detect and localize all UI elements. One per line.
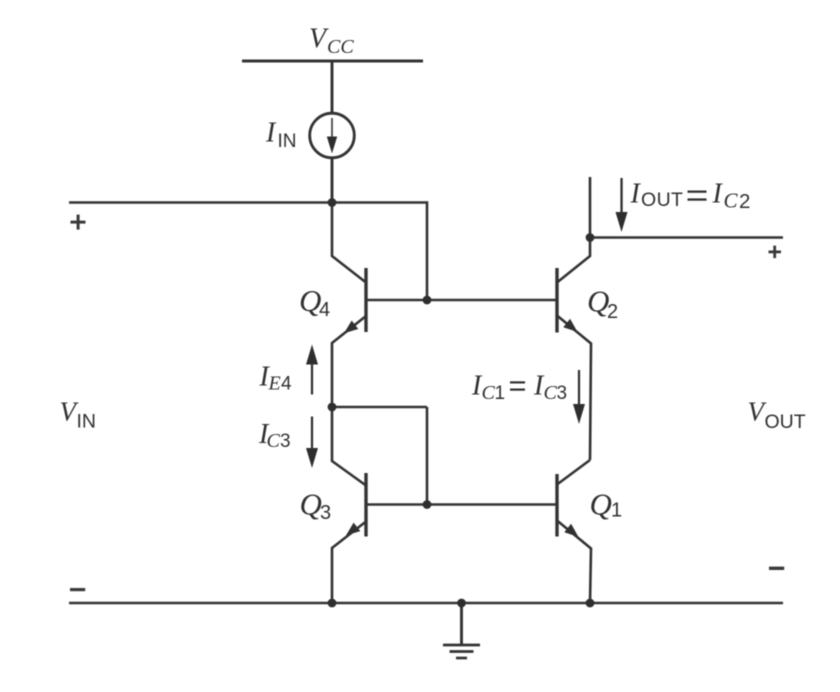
output rail (top right line) bbox=[590, 236, 783, 239]
label IE4 bbox=[259, 362, 293, 395]
current source arrowhead bbox=[327, 137, 337, 154]
svg-text:Q: Q bbox=[590, 487, 612, 522]
svg-text:4: 4 bbox=[319, 299, 330, 321]
label VCC bbox=[309, 24, 354, 59]
wire node B horizontal bbox=[332, 406, 427, 409]
svg-text:E: E bbox=[268, 373, 281, 395]
minus sign output bbox=[769, 567, 784, 570]
transistor Q3 base bar bbox=[364, 473, 367, 537]
svg-text:C: C bbox=[267, 430, 281, 452]
ground symbol bbox=[443, 645, 480, 658]
svg-text:I: I bbox=[712, 179, 724, 210]
svg-text:I: I bbox=[630, 179, 642, 210]
label IC3 left bbox=[258, 419, 291, 452]
wire base net Q3 to Q1 bbox=[366, 503, 557, 506]
svg-text:Q: Q bbox=[300, 487, 322, 522]
junction Q1 emitter to ground rail bbox=[586, 599, 595, 608]
wire base net Q4 to Q2 bbox=[366, 299, 557, 302]
label Q2 bbox=[587, 284, 618, 324]
junction node A bbox=[328, 198, 337, 207]
junction base net top bbox=[423, 296, 432, 305]
label IC1 = IC3 bbox=[471, 371, 567, 404]
svg-text:1: 1 bbox=[611, 500, 622, 522]
junction output node bbox=[586, 233, 595, 242]
minus sign input bbox=[70, 588, 85, 591]
wire node B down to lower base net bbox=[426, 407, 429, 505]
transistor Q2 collector lead bbox=[557, 177, 590, 283]
wire node A corner down to base net bbox=[426, 201, 429, 300]
svg-text:C: C bbox=[724, 189, 739, 213]
transistor Q3 collector lead bbox=[332, 407, 366, 486]
transistor Q2 base bar bbox=[555, 268, 558, 333]
label VOUT bbox=[748, 397, 806, 434]
transistor Q2 emitter arrow (NPN) bbox=[563, 319, 577, 332]
svg-text:I: I bbox=[265, 118, 277, 149]
transistor Q3 emitter lead bbox=[332, 522, 366, 604]
current source arrow shaft bbox=[331, 118, 333, 140]
svg-text:4: 4 bbox=[281, 374, 292, 395]
wire current source to node A bbox=[331, 158, 334, 203]
junction Q3 emitter to ground rail bbox=[328, 599, 337, 608]
svg-text:OUT: OUT bbox=[641, 189, 683, 211]
transistor Q4 collector lead bbox=[332, 203, 366, 283]
label IIN bbox=[265, 118, 297, 153]
svg-text:2: 2 bbox=[739, 190, 750, 213]
transistor Q1 emitter lead bbox=[557, 521, 591, 604]
svg-text:C: C bbox=[482, 382, 496, 404]
transistor Q3 emitter arrow (NPN) bbox=[346, 523, 360, 536]
label Q4 bbox=[299, 283, 330, 321]
svg-text:IN: IN bbox=[77, 411, 97, 433]
svg-text:OUT: OUT bbox=[765, 411, 806, 433]
plus sign input bbox=[71, 221, 86, 224]
transistor Q1 emitter arrow (NPN) bbox=[564, 524, 578, 537]
svg-text:2: 2 bbox=[607, 301, 618, 323]
junction node B bbox=[328, 403, 337, 412]
ground rail (bottom line) bbox=[69, 602, 783, 605]
current source IIN circle bbox=[310, 113, 355, 158]
svg-text:V: V bbox=[309, 24, 329, 55]
svg-text:1: 1 bbox=[495, 383, 506, 404]
transistor Q4 base bar bbox=[364, 268, 367, 332]
transistor Q4 emitter lead bbox=[332, 316, 366, 407]
wire VCC to current source bbox=[331, 61, 334, 114]
svg-text:3: 3 bbox=[320, 502, 331, 524]
svg-text:IN: IN bbox=[278, 131, 297, 152]
junction ground stub bbox=[457, 599, 466, 608]
junction base net bottom bbox=[423, 500, 432, 509]
label Q3 bbox=[300, 487, 332, 525]
ground stub wire bbox=[460, 603, 463, 645]
arrow IC3 (down) bbox=[311, 417, 313, 451]
svg-text:C: C bbox=[544, 382, 558, 404]
transistor Q1 base bar bbox=[555, 474, 558, 537]
label IOUT = IC2 bbox=[630, 179, 751, 214]
label VIN bbox=[60, 397, 97, 433]
arrow IC1 (down) bbox=[578, 370, 580, 406]
svg-text:CC: CC bbox=[327, 36, 354, 58]
transistor Q2 emitter lead bbox=[557, 316, 591, 461]
arrow IE4 (up) bbox=[311, 363, 313, 395]
transistor Q1 collector lead bbox=[557, 460, 590, 485]
label Q1 bbox=[590, 487, 623, 522]
plus sign output bbox=[769, 251, 782, 254]
power rail VCC bbox=[242, 59, 423, 62]
transistor Q4 emitter arrow (NPN) bbox=[344, 321, 358, 334]
svg-text:3: 3 bbox=[280, 431, 291, 452]
svg-text:3: 3 bbox=[557, 383, 568, 404]
arrow IOUT bbox=[620, 178, 622, 214]
node A rail (top input line) bbox=[69, 201, 427, 204]
